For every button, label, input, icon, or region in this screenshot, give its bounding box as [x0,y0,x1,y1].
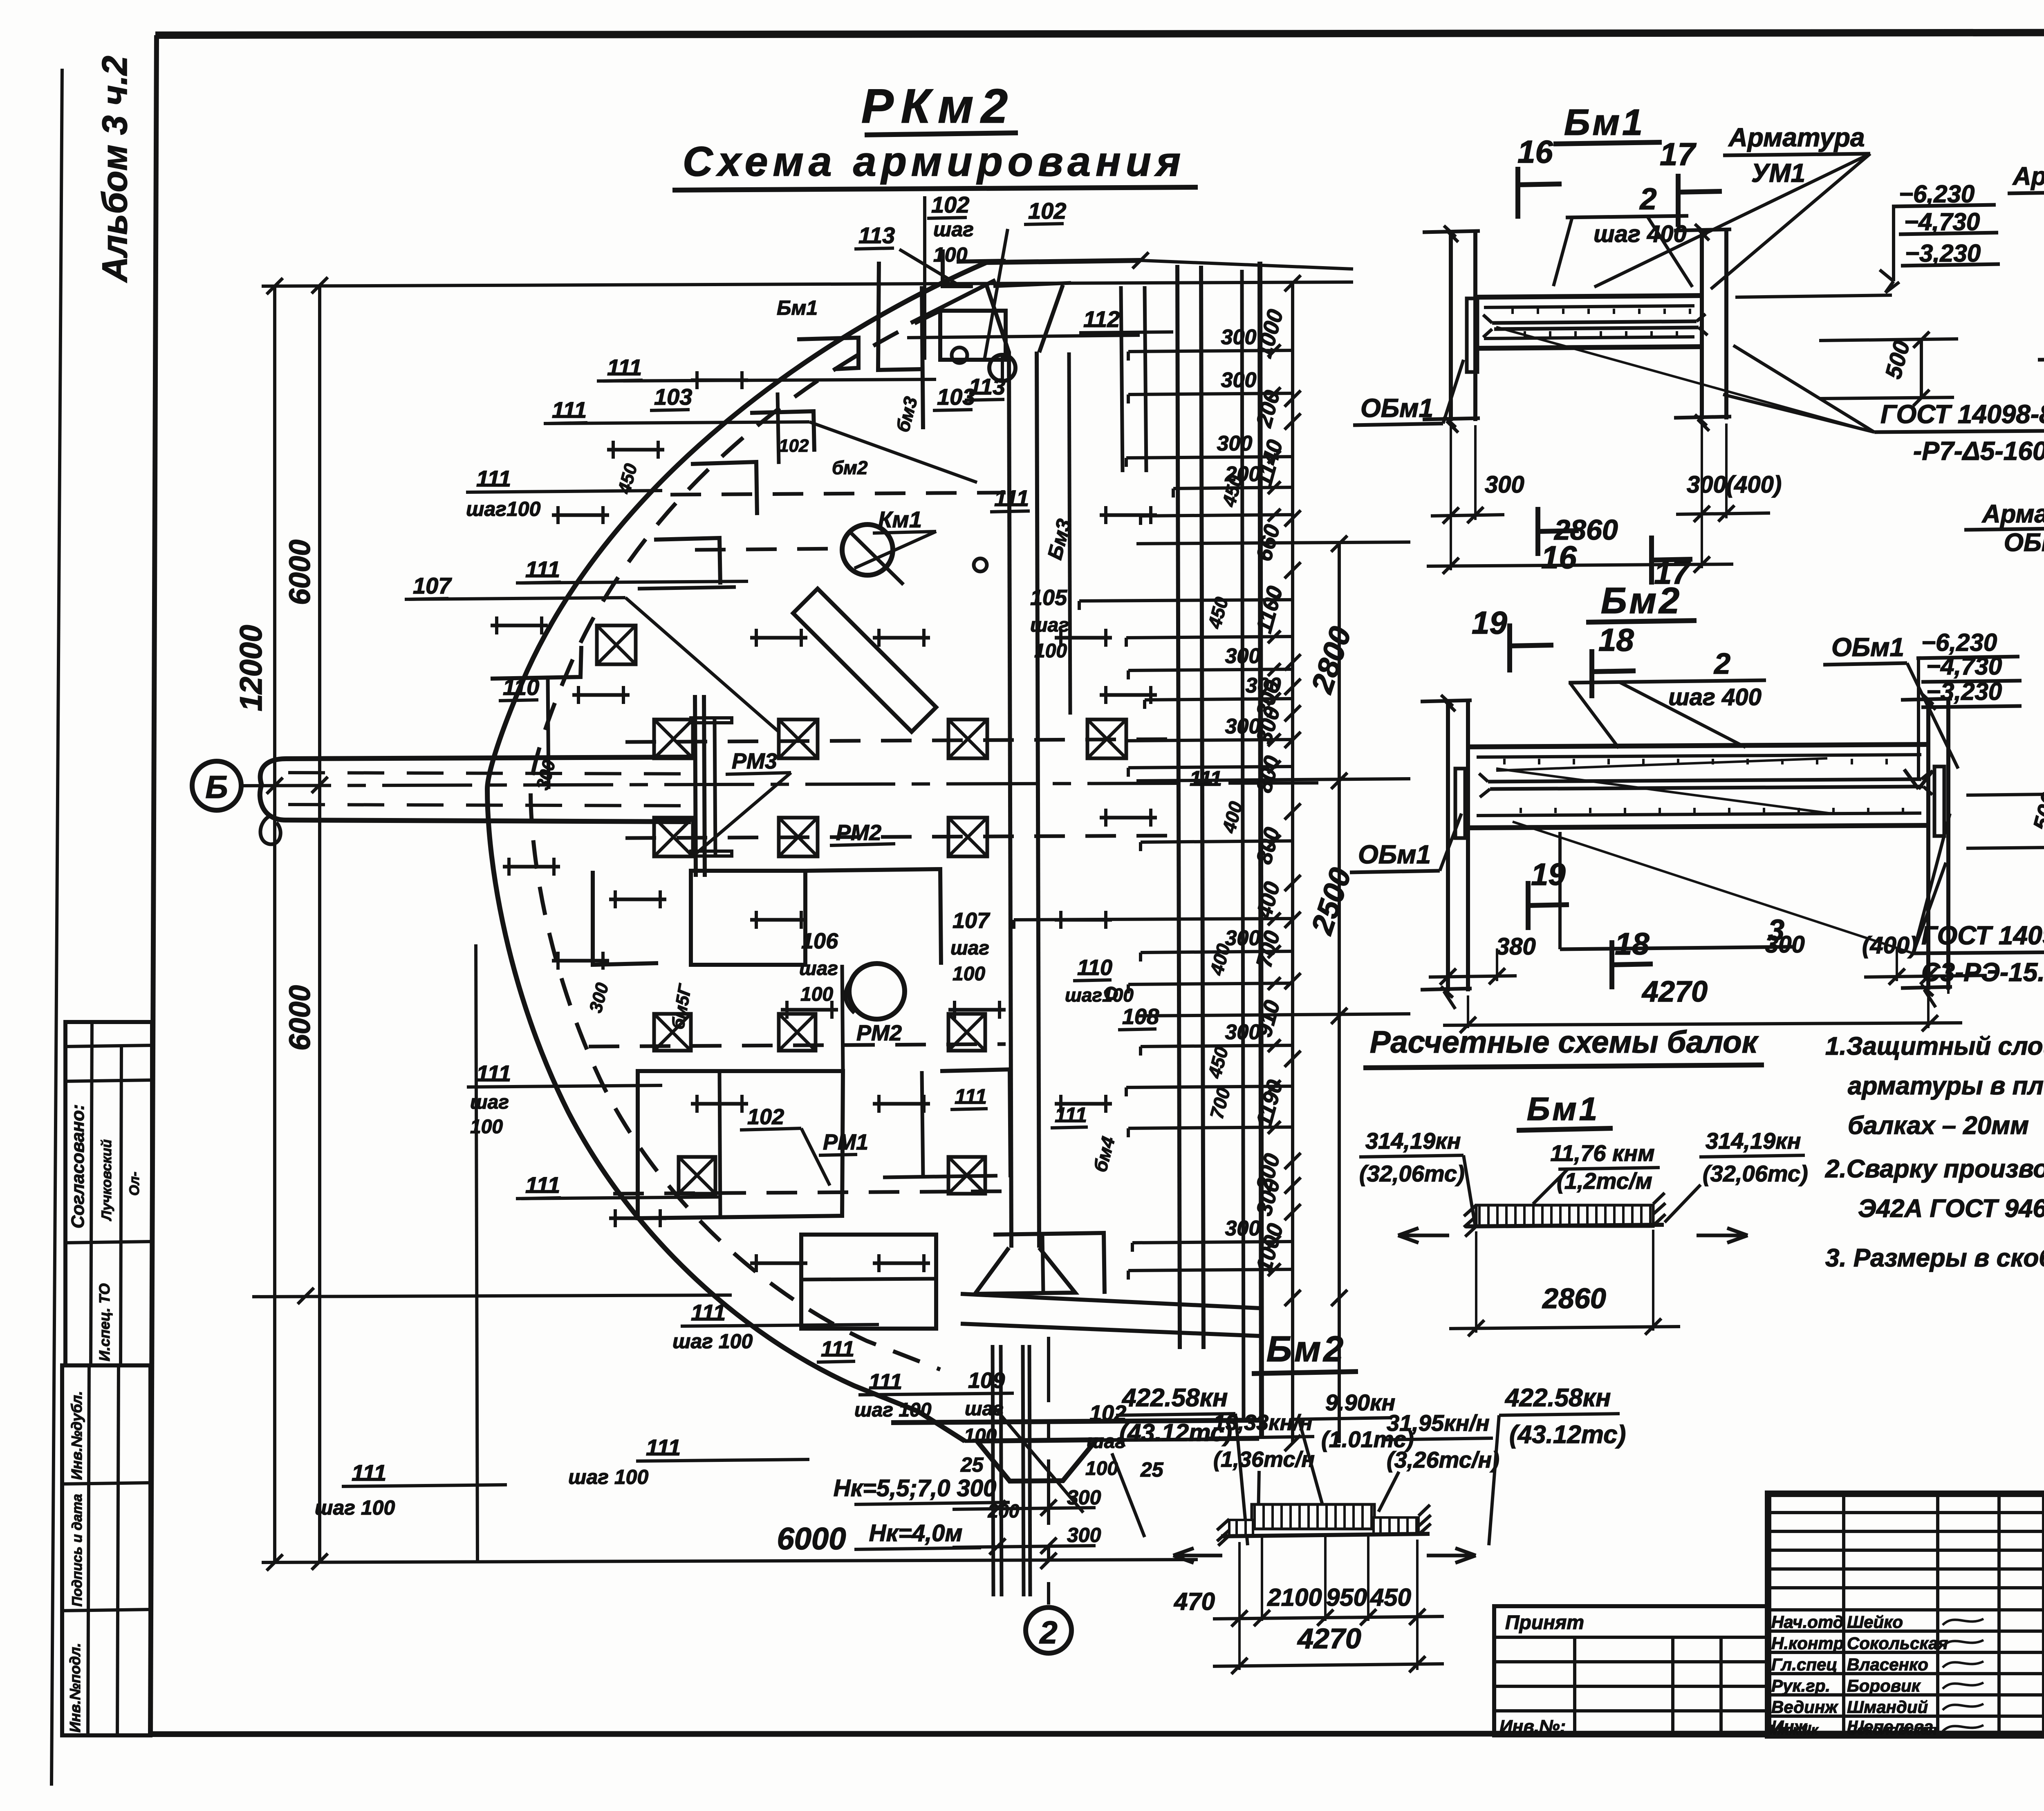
svg-text:6000: 6000 [777,1522,846,1556]
svg-text:13,33кн/н: 13,33кн/н [1213,1410,1313,1435]
section mark 17 bottom [1652,536,1692,591]
svg-text:300: 300 [1067,1486,1101,1509]
svg-text:314,19кн: 314,19кн [1706,1128,1801,1154]
svg-text:РМ2: РМ2 [836,820,881,845]
central column bottom flare [975,1248,1075,1294]
svg-text:300: 300 [1221,325,1257,349]
svg-text:−3,230: −3,230 [1926,678,2002,705]
svg-text:111: 111 [607,354,642,380]
pipe flange [691,695,732,877]
armatura OBm1 label top [2008,162,2044,399]
bottom machine boxes [801,1233,1105,1329]
svg-text:−6,230: −6,230 [1921,629,1997,656]
svg-text:Инв.№:: Инв.№: [1499,1717,1566,1737]
small circle top left of column [952,347,967,363]
svg-text:И.спец. ТО: И.спец. ТО [96,1283,113,1361]
plan bottom slab edge [891,1420,1260,1423]
svg-text:16: 16 [1517,134,1553,170]
inner channel upper wall pair [1121,286,1123,472]
svg-text:шаг: шаг [1030,614,1069,636]
stamp roles and names [1769,1612,1983,1738]
svg-text:111: 111 [955,1085,987,1109]
section mark 19 bottom [1528,857,1569,930]
equipment circle KM1 [842,524,893,575]
svg-text:470: 470 [1174,1588,1215,1615]
svg-text:2.Сварку производить электрода: 2.Сварку производить электродами типа [1825,1155,2044,1183]
svg-text:ГОСТ 14098-85-С23-: ГОСТ 14098-85-С23- [1880,399,2044,429]
calc scheme Bm1 span dim [1449,1230,1680,1336]
svg-text:Инв.№подл.: Инв.№подл. [67,1643,83,1733]
svg-text:2860: 2860 [1542,1282,1606,1314]
svg-text:Власенко: Власенко [1847,1655,1928,1674]
svg-text:102: 102 [747,1105,784,1129]
svg-text:103: 103 [654,384,692,410]
plan centreline [241,783,1335,786]
svg-text:Лучковский: Лучковский [99,1139,114,1222]
interior dashed band upper [670,493,1006,495]
svg-text:100: 100 [470,1116,503,1138]
svg-text:РМ2: РМ2 [856,1021,902,1045]
axis circle Б [192,761,241,810]
svg-text:102: 102 [779,436,809,456]
svg-text:шаг: шаг [470,1092,509,1113]
svg-text:шаг 400: шаг 400 [1668,684,1762,711]
svg-text:111: 111 [646,1434,681,1460]
interior partitions middle [491,646,941,1071]
Bm1 left wall [1423,226,1480,433]
svg-text:380: 380 [1496,933,1536,960]
lower cross boxes [654,1014,985,1194]
svg-text:6000: 6000 [284,985,316,1051]
svg-text:300: 300 [1765,931,1805,958]
svg-text:Альбом 3 ч.2: Альбом 3 ч.2 [95,56,134,283]
svg-text:РМ3: РМ3 [732,749,777,773]
svg-text:Б: Б [205,769,228,805]
Bm1 level marks [1735,180,2000,406]
Bm1 bottom dims [1427,424,1782,574]
svg-text:Нач.отд: Нач.отд [1771,1612,1844,1632]
svg-text:Бм1: Бм1 [777,296,818,319]
plan central beam band [1009,352,1011,1248]
svg-text:шаг 100: шаг 100 [315,1496,395,1519]
section mark 17 top [1660,136,1722,227]
plan inner wall upper slant [911,280,995,323]
plan inner wall dashed [531,311,940,1369]
label 2 shag 400 Bm2 [1569,648,1766,748]
svg-text:300: 300 [1225,1217,1261,1240]
svg-text:9.90кн: 9.90кн [1325,1390,1395,1415]
GOST weld note 1 [1496,327,2044,466]
svg-text:110: 110 [1077,955,1112,980]
svg-text:4270: 4270 [1641,975,1708,1008]
section mark 18 top [1592,622,1636,698]
svg-text:111: 111 [525,1172,560,1198]
svg-text:17: 17 [1660,136,1697,172]
interior dashed band middle [625,739,1177,742]
svg-text:102: 102 [1028,198,1066,224]
level extension line left [252,1295,732,1297]
svg-text:арматуры в плите принят 15мм,: арматуры в плите принят 15мм, в [1848,1072,2044,1100]
svg-text:УМ1: УМ1 [1751,158,1805,188]
svg-text:РМ1: РМ1 [823,1130,868,1154]
svg-text:111: 111 [869,1369,902,1394]
lower room walls [638,1069,1011,1218]
right dimension chain inner [936,275,1410,1451]
svg-text:314,19кн: 314,19кн [1365,1128,1461,1154]
cross boxes row [597,625,1126,856]
svg-text:1.Защитный слой бетона для ра: 1.Защитный слой бетона для рабочей [1825,1032,2044,1060]
svg-text:103: 103 [937,384,975,410]
svg-text:300: 300 [1246,674,1281,697]
svg-text:111: 111 [552,397,587,423]
GOST weld note 2 [1513,814,2044,987]
label 3 Bm2 [1560,832,1795,949]
svg-text:450: 450 [1370,1584,1411,1611]
svg-text:шаг 100: шаг 100 [672,1330,753,1353]
svg-text:Боровик: Боровик [1847,1676,1921,1695]
svg-text:19: 19 [1531,857,1566,892]
svg-text:ОБм1: ОБм1 [1358,840,1431,869]
svg-text:113: 113 [858,222,895,248]
svg-text:Соколовская: Соколовская [1847,1722,1937,1738]
section 16-16 labels [2038,180,2044,524]
svg-text:(1,2тс/м: (1,2тс/м [1557,1168,1652,1194]
section mark 18 bottom [1612,927,1653,989]
calc scheme Bm2 right load [1427,1384,1626,1563]
svg-text:Рук.гр.: Рук.гр. [1771,1676,1830,1695]
svg-text:112: 112 [1083,306,1120,332]
calc scheme Bm1 dist load label [1533,1140,1660,1204]
section mark 16 top [1517,134,1562,219]
svg-text:19: 19 [1472,605,1507,641]
Bm1 beam body [1475,296,1708,348]
OBm1 label left Bm2 [1350,814,1461,872]
svg-text:422.58кн: 422.58кн [1504,1384,1611,1412]
section mark 16 bottom [1538,507,1579,575]
svg-text:4270: 4270 [1297,1623,1361,1654]
svg-text:Подпись и дата: Подпись и дата [69,1494,85,1607]
grid line 2 dashed vertical [1047,1337,1050,1605]
svg-text:шаг: шаг [965,1398,1004,1420]
rebar lines right side with dims [1014,325,1293,1280]
plan inner channel wall [1177,265,1180,1349]
svg-text:Схема армирования: Схема армирования [683,138,1186,185]
svg-text:100: 100 [800,984,833,1005]
equipment circle lower [849,964,905,1019]
svg-text:111: 111 [691,1300,726,1325]
svg-text:Н.контр: Н.контр [1771,1634,1844,1653]
svg-text:300: 300 [1225,644,1261,668]
svg-text:Арматура: Арматура [1981,500,2044,528]
svg-text:Км1: Км1 [878,507,922,532]
svg-text:422.58кн: 422.58кн [1121,1384,1228,1412]
svg-text:300: 300 [1225,715,1261,738]
svg-text:25: 25 [1140,1458,1164,1481]
svg-text:шаг: шаг [933,218,974,241]
armatura UM1 label [1594,123,1870,289]
svg-text:Бм2: Бм2 [1266,1329,1346,1369]
sidebar approval table [65,1022,152,1365]
svg-text:Арматура: Арматура [2012,162,2044,191]
plan top slab edge [986,260,1141,262]
svg-text:Нк=4,0м: Нк=4,0м [869,1520,963,1547]
diagonal chute [793,589,936,732]
svg-text:2100: 2100 [1267,1584,1322,1611]
svg-text:Инв.№дубл.: Инв.№дубл. [68,1391,85,1480]
svg-text:109: 109 [968,1368,1005,1393]
svg-text:Согласовано:: Согласовано: [68,1104,88,1228]
central column top flare [986,284,1009,352]
svg-text:−4,730: −4,730 [1926,652,2002,680]
svg-text:шаг 100: шаг 100 [854,1399,932,1421]
svg-text:102: 102 [931,192,969,217]
Bm2 beam body [1468,744,1932,828]
svg-text:110: 110 [503,674,539,700]
svg-text:ОБм1: ОБм1 [2004,529,2044,557]
calc scheme Bm1 left load [1359,1128,1475,1243]
svg-text:107: 107 [953,908,991,933]
svg-text:111: 111 [994,485,1029,511]
svg-text:2: 2 [1639,182,1656,216]
svg-text:Бм1: Бм1 [1527,1091,1600,1127]
small circle near KM1 [974,558,987,572]
left margin line [52,69,62,1786]
svg-text:31,95кн/н: 31,95кн/н [1387,1410,1490,1436]
OBm1 label left [1353,360,1464,425]
svg-text:Бм1: Бм1 [1564,102,1645,143]
svg-text:111: 111 [821,1337,854,1361]
svg-text:ГОСТ 14098-85-: ГОСТ 14098-85- [1921,921,2044,950]
svg-text:Бм2: Бм2 [1601,581,1682,621]
svg-text:12000: 12000 [234,625,269,711]
priniat table [1494,1606,1768,1737]
svg-text:балках – 20мм: балках – 20мм [1848,1112,2029,1140]
left lower labels [315,1060,1164,1537]
small circle lower right [1106,988,1116,999]
svg-text:Шмандий: Шмандий [1847,1697,1928,1717]
svg-text:(1,36тс/н: (1,36тс/н [1213,1447,1315,1472]
svg-text:100: 100 [933,243,968,266]
bottom dimension 6000 [262,1475,1198,1569]
Bm3 vertical dash line [1069,352,1070,715]
top slab rebar line [907,335,1140,338]
Bm2 bottom dims [1429,931,1987,1033]
svg-text:300: 300 [1225,1020,1261,1044]
inlet pipe [260,757,691,844]
axis circle 2 [1026,1607,1071,1653]
svg-text:100: 100 [953,963,985,985]
svg-text:100: 100 [1034,640,1067,662]
svg-text:шаг100: шаг100 [466,498,541,520]
svg-text:100: 100 [964,1425,997,1447]
svg-text:(32,06тс): (32,06тс) [1359,1161,1465,1186]
Bm1 right wall [1674,224,1731,431]
calc scheme Bm2 load 31_95 [1378,1410,1499,1512]
svg-text:18: 18 [1598,622,1634,658]
title block stamp [1768,1494,2044,1735]
svg-text:Нк=5,5;7,0 300: Нк=5,5;7,0 300 [834,1475,997,1502]
lower dashed outline [589,1044,1006,1047]
rebar mark ticks scattered [491,371,1157,1272]
svg-text:300: 300 [1221,368,1257,392]
svg-text:111: 111 [476,466,511,491]
section mark 19 top [1472,605,1553,672]
svg-text:2: 2 [1713,648,1730,680]
calc scheme Bm2 beam [1217,1504,1431,1546]
svg-text:Ол-: Ол- [127,1172,142,1196]
svg-text:(3,26тс/н): (3,26тс/н) [1387,1447,1499,1473]
Bm2 right wall [1901,693,1952,1007]
svg-text:25: 25 [960,1453,984,1476]
notes text [1825,1032,2044,1272]
svg-text:Шейко: Шейко [1847,1612,1903,1632]
svg-text:ОБм1: ОБм1 [1831,632,1904,662]
svg-text:18: 18 [1615,927,1650,962]
svg-text:111: 111 [476,1060,511,1086]
left dimension chain 12000 [234,277,936,1571]
svg-text:шаг: шаг [950,937,989,959]
svg-text:(43.12тс): (43.12тс) [1509,1421,1626,1449]
svg-text:-Р7-Δ5-160: -Р7-Δ5-160 [1913,436,2044,466]
svg-text:11,76 кнм: 11,76 кнм [1550,1140,1654,1166]
svg-text:С3-РЭ-15.160: С3-РЭ-15.160 [1921,957,2044,987]
svg-text:6000: 6000 [284,540,316,605]
svg-text:Сокольская: Сокольская [1847,1634,1948,1653]
svg-text:ОБм1: ОБм1 [1360,393,1433,423]
calc scheme Bm1 beam [1464,1193,1665,1237]
plan right wall [1260,262,1262,1439]
svg-text:Вединж: Вединж [1771,1697,1838,1717]
svg-text:106: 106 [801,929,838,953]
drawing title [672,79,1198,190]
svg-text:Гл.спец: Гл.спец [1771,1655,1837,1674]
svg-text:Расчетные схемы балок: Расчетные схемы балок [1370,1025,1759,1060]
calc scheme Bm2 load 9_90 [1291,1390,1414,1508]
svg-text:Принят: Принят [1505,1612,1584,1634]
vertical extension line x1164 [476,944,477,1561]
svg-text:шаг: шаг [799,958,838,979]
svg-text:бм2: бм2 [832,457,868,478]
svg-text:2860: 2860 [1553,514,1618,546]
Bm2 left wall [1421,695,1472,1009]
svg-text:шаг 100: шаг 100 [568,1466,648,1488]
svg-text:шаг100: шаг100 [1065,984,1134,1006]
Bm2 OBm1 right and levels [1823,629,2044,867]
svg-text:111: 111 [352,1460,386,1486]
svg-text:300: 300 [1485,471,1524,498]
calc scheme Bm1 right load [1665,1128,1808,1243]
svg-text:Арматура: Арматура [1728,123,1865,152]
svg-text:РКм2: РКм2 [861,79,1015,133]
svg-text:шаг 400: шаг 400 [1594,221,1687,247]
plan labels [405,192,1222,1186]
svg-text:2: 2 [1039,1614,1057,1650]
svg-text:Мнж.IIк: Мнж.IIк [1769,1722,1819,1738]
svg-text:105: 105 [1030,585,1067,610]
calc scheme Bm2 span dims [1174,1535,1444,1674]
svg-text:950: 950 [1326,1584,1367,1611]
calc scheme Bm2 load 13_33 [1208,1410,1315,1517]
sidebar inventory table [62,1365,150,1735]
svg-text:300: 300 [1217,432,1253,455]
svg-text:111: 111 [525,556,560,582]
svg-text:3. Размеры в скобках для Нк =: 3. Размеры в скобках для Нк = 4,0м [1825,1244,2044,1272]
plan outer wall [487,262,986,1441]
interior partition lines upper [638,249,1006,589]
svg-text:Э42А ГОСТ 9467-75 .: Э42А ГОСТ 9467-75 . [1858,1195,2044,1223]
svg-text:107: 107 [413,573,452,598]
plan bottom cap [977,1440,1096,1481]
small circle top [989,355,1015,381]
svg-text:111: 111 [1055,1103,1087,1127]
svg-text:300: 300 [1067,1524,1101,1547]
label 2 shag 400 Bm1 [1553,182,1692,287]
calc scheme Bm2 left load [1116,1384,1248,1563]
armatura OBm1 label bottom [1964,409,2044,557]
svg-text:(32,06тс): (32,06тс) [1703,1161,1808,1186]
